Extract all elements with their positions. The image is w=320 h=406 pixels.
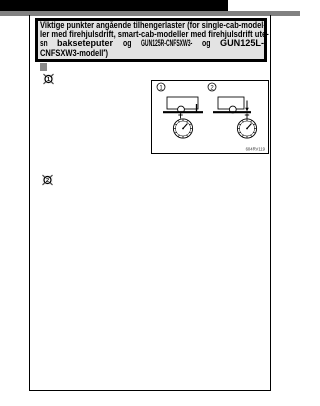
svg-text:604RV119: 604RV119 xyxy=(246,146,266,151)
svg-text:2: 2 xyxy=(46,178,49,184)
